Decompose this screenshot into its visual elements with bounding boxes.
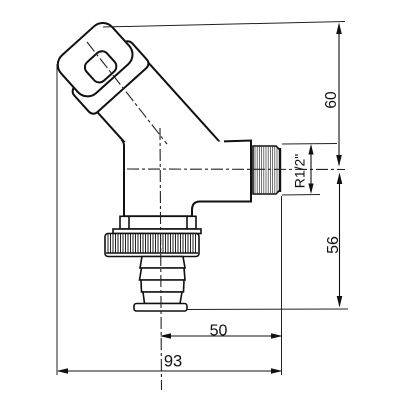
svg-text:93: 93	[164, 353, 182, 371]
right ext (50/93) from thread	[281, 196, 283, 375]
bonnet	[70, 39, 151, 116]
nut bottom rim line	[106, 252, 198, 254]
barb bottom ext (56)	[186, 308, 348, 311]
knurled nut	[105, 229, 201, 257]
thread fitting R1/2	[253, 146, 280, 194]
thread hatch	[255, 146, 277, 194]
dim 50	[160, 333, 283, 339]
dim 60	[336, 23, 342, 167]
hose barb	[134, 257, 187, 312]
top ext (60)	[103, 22, 345, 28]
svg-text:56: 56	[325, 236, 342, 254]
diagonal centerline	[87, 42, 167, 144]
body outline	[124, 141, 251, 217]
valve head group (rotated 42deg)	[49, 15, 228, 202]
cap	[82, 48, 119, 85]
R1/2 top ext	[282, 143, 337, 146]
vertical centerline	[160, 128, 162, 390]
svg-text:50: 50	[210, 323, 228, 340]
neck	[91, 57, 227, 197]
horizontal centerline	[127, 168, 345, 171]
svg-text:60: 60	[323, 91, 340, 109]
band D	[143, 292, 182, 304]
extension lines	[57, 22, 348, 376]
dim 56	[337, 173, 343, 308]
left ext (93)	[56, 64, 58, 375]
collar	[120, 216, 196, 229]
svg-text:R1/2": R1/2"	[292, 154, 308, 189]
centerlines	[87, 42, 345, 390]
thread right face	[279, 148, 281, 192]
left fillet	[122, 140, 125, 147]
R1/2 bottom ext	[282, 194, 320, 197]
band A	[140, 257, 185, 269]
end bead	[134, 304, 187, 312]
dim 93	[57, 368, 283, 374]
band B	[140, 268, 186, 280]
band C	[141, 280, 184, 292]
dim R1/2	[308, 144, 313, 194]
knurl hatch	[108, 234, 196, 253]
body mask	[122, 141, 252, 218]
handle	[52, 18, 137, 102]
